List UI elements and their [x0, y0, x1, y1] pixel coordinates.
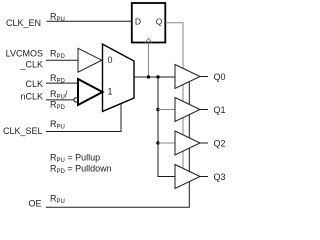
wire CLK_EN to D input — [47, 20, 132, 22]
junction clock bus to Q1 — [156, 108, 159, 111]
svg-text:Q3: Q3 — [214, 172, 226, 182]
wire OE segment between Q3 and Q2 — [188, 148, 190, 171]
wire Q2 output — [200, 142, 208, 144]
wire OE net — [46, 182, 189, 208]
buffer U3 (differential clock receiver, bold) — [78, 79, 103, 105]
svg-text:CLK_EN: CLK_EN — [6, 18, 41, 28]
wire Q0 output — [200, 76, 208, 78]
flip-flop U1 box — [132, 3, 166, 43]
wire enable net segment between Q0 and Q1 — [182, 85, 184, 102]
wire Q1 output — [200, 109, 208, 111]
svg-text:Q1: Q1 — [214, 105, 226, 115]
buffer Q3 — [175, 165, 200, 189]
wire enable net segment between Q1 and Q2 — [182, 118, 184, 135]
buffer Q0 — [175, 65, 200, 89]
wire Q3 output — [200, 176, 208, 178]
svg-text:0: 0 — [108, 55, 113, 65]
wire LVCMOS_CLK to buffer — [46, 59, 78, 61]
wire stub to Q2 buffer — [158, 142, 175, 144]
buffer Q1 — [175, 98, 200, 122]
wire OE segment between Q2 and Q1 — [188, 115, 190, 138]
svg-text:Q: Q — [156, 17, 163, 27]
svg-text:Q2: Q2 — [214, 138, 226, 148]
junction at clock riser — [147, 75, 150, 78]
svg-text:OE: OE — [28, 199, 41, 209]
wire Q output of U1 (enable net) — [166, 23, 183, 69]
mux U4 — [103, 44, 135, 111]
wire nCLK to bubble — [46, 99, 74, 101]
wire stub to Q1 buffer — [158, 109, 175, 111]
svg-text:_CLK: _CLK — [19, 60, 43, 70]
junction clock bus to Q2 — [156, 141, 159, 144]
svg-text:Q0: Q0 — [214, 72, 226, 82]
wire clock bus down — [158, 77, 175, 177]
svg-text:D: D — [135, 17, 141, 27]
wire enable net segment between Q2 and Q3 — [182, 151, 184, 168]
svg-text:nCLK: nCLK — [20, 92, 43, 102]
wire mux output clock net — [134, 76, 175, 78]
svg-text:LVCMOS: LVCMOS — [6, 49, 43, 59]
svg-text:1: 1 — [108, 87, 113, 97]
junction at clock bus top — [156, 75, 159, 78]
clock input caret on U1 — [145, 38, 152, 42]
wire OE segment between Q1 and Q0 — [188, 82, 190, 105]
wire CLK to diff buffer — [46, 82, 78, 84]
inversion bubble on nCLK input — [74, 98, 78, 102]
svg-text:CLK_SEL: CLK_SEL — [3, 126, 43, 136]
buffer Q2 — [175, 131, 200, 155]
buffer U2 (LVCMOS input buffer) — [78, 48, 102, 72]
wire clock riser to U1 clock pin — [148, 43, 150, 78]
wire CLK_SEL to mux select — [46, 103, 121, 131]
svg-text:CLK: CLK — [25, 79, 43, 89]
